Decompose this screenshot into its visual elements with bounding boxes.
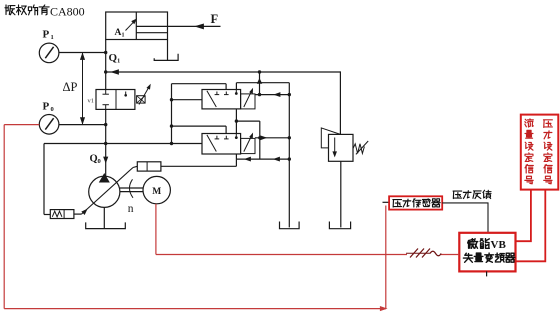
red sensor drop wire xyxy=(385,206,387,309)
svg-text:P: P xyxy=(43,29,50,41)
pump suction line xyxy=(103,207,105,228)
pump outlet triangle xyxy=(99,174,109,183)
valve V1 body xyxy=(96,90,135,110)
node main branch xyxy=(104,70,107,73)
cylinder drain line xyxy=(167,40,169,61)
force rod line xyxy=(168,25,221,27)
V1 solenoid xyxy=(137,96,146,103)
red setting wire B xyxy=(516,190,546,262)
inverter text line1 微能VB xyxy=(468,239,490,249)
tank T4 relief xyxy=(329,222,350,229)
svg-text:ΔP: ΔP xyxy=(63,80,78,94)
spring W zigzag xyxy=(52,211,62,217)
relief internal path xyxy=(334,138,336,156)
red bus arrow xyxy=(380,307,386,311)
relief pilot line xyxy=(321,128,340,148)
red motor power wire xyxy=(155,204,157,255)
DV1 top-right port stub xyxy=(235,83,237,90)
riser up arrow xyxy=(257,79,261,84)
valve2 top-left port line xyxy=(172,125,227,127)
dP arrow down xyxy=(81,118,85,124)
svg-text:A: A xyxy=(115,28,122,38)
dP arrow up xyxy=(81,54,85,60)
pressure header line xyxy=(106,71,341,73)
delta-P dimension line xyxy=(82,53,84,125)
svg-text:P: P xyxy=(43,101,50,113)
settings box xyxy=(521,115,559,190)
node pump line / bypass xyxy=(170,142,173,145)
pump variable displacement arrow xyxy=(82,168,134,215)
DV2 solenoid xyxy=(241,138,255,153)
svg-text:0: 0 xyxy=(51,106,54,113)
left loop wire xyxy=(43,144,45,215)
riser2 vertical xyxy=(259,121,261,159)
control/drain line y159 xyxy=(236,158,289,160)
DV2 out arrow xyxy=(261,136,267,140)
piston rod top xyxy=(136,25,167,27)
svg-text:1: 1 xyxy=(51,34,54,41)
link to riser2 xyxy=(236,120,259,122)
pump inlet from line xyxy=(105,144,107,177)
tank T1 under cylinder xyxy=(154,54,178,61)
shaft bottom line xyxy=(120,191,143,193)
DV1 proportional arrow xyxy=(244,90,252,107)
control line to right xyxy=(161,165,237,167)
svg-text:0: 0 xyxy=(98,158,101,165)
right bus vertical xyxy=(288,83,290,228)
DV1 top port to right bus xyxy=(236,82,289,84)
sensor text xyxy=(393,199,440,207)
svg-text:F: F xyxy=(211,12,219,26)
V1 internals xyxy=(105,90,107,95)
relief valve body xyxy=(329,134,354,161)
main line: cylinder to valve V1 xyxy=(105,40,107,90)
red bottom bus xyxy=(4,308,386,310)
red wire to P0 gauge xyxy=(4,124,39,126)
valve DV1 body xyxy=(202,90,241,109)
valve DV2 body xyxy=(202,134,241,155)
sensor stub xyxy=(383,201,390,203)
inverter text line2 矢量变频器 xyxy=(463,253,514,262)
DV1 solenoid out line xyxy=(255,94,289,96)
tank T3 right bus xyxy=(280,222,300,229)
piston rod bottom xyxy=(136,32,167,34)
tank T2 under pump xyxy=(86,222,126,228)
red setting wire A xyxy=(516,190,531,242)
valve1 left port line xyxy=(172,99,203,101)
pump outlet line xyxy=(44,143,202,145)
riser main to solenoid line xyxy=(259,72,261,95)
motor circle M xyxy=(143,176,170,203)
watermark 版权所有CA800 xyxy=(5,5,49,15)
shaft top line xyxy=(120,187,143,189)
left bypass vertical xyxy=(171,84,173,144)
inverter box xyxy=(459,233,515,272)
settings text right col 压力设定信号 xyxy=(543,120,552,184)
pressure gauge P0 xyxy=(39,115,59,135)
spring link to pump arrow xyxy=(74,213,82,215)
svg-text:v1: v1 xyxy=(88,98,95,105)
settings text left col 流量设定信号 xyxy=(525,119,533,184)
Q0 flow arrow xyxy=(104,157,108,163)
DV2 internals xyxy=(207,135,216,152)
DV2 bottom port stub xyxy=(235,154,237,159)
P0 tap line xyxy=(59,124,106,126)
node P0 junction xyxy=(104,123,107,126)
pump control box xyxy=(137,162,161,171)
inter-valve vertical xyxy=(235,109,237,134)
variable arrow head xyxy=(82,210,87,215)
DV1 solenoid xyxy=(241,94,255,109)
cylinder A1 body xyxy=(106,12,168,40)
svg-text:M: M xyxy=(152,187,161,197)
relief inlet line xyxy=(339,71,341,134)
feedback wire xyxy=(442,203,488,233)
header arrow xyxy=(112,70,119,74)
relief adjust arrow xyxy=(356,141,368,154)
red left riser xyxy=(3,125,5,309)
valve1 top-left port line xyxy=(172,83,227,85)
inverter bottom stub xyxy=(486,271,488,276)
svg-text:1: 1 xyxy=(122,33,125,39)
node pump line / main line xyxy=(104,142,107,145)
sensor box xyxy=(389,196,442,209)
cylinder piston xyxy=(135,12,137,40)
node P1 junction xyxy=(104,51,107,54)
main line: valve V1 to pump line xyxy=(105,109,107,143)
DV1 internals xyxy=(207,91,216,107)
V1 proportional arrow xyxy=(139,86,150,105)
P1 tap line xyxy=(59,52,106,54)
relief spring xyxy=(353,144,364,154)
svg-text:VB: VB xyxy=(491,239,507,251)
A1 variable arrow xyxy=(126,20,136,30)
relief drain line xyxy=(340,161,342,227)
svg-text:1: 1 xyxy=(117,58,120,65)
force arrowhead xyxy=(196,24,204,29)
svg-text:Q: Q xyxy=(90,154,98,165)
spring box W xyxy=(50,210,74,219)
cable break slashes xyxy=(410,249,418,258)
pressure gauge P1 xyxy=(39,43,59,63)
label 压力反馈 xyxy=(453,190,491,198)
pump circle xyxy=(89,176,120,207)
DV1 out arrow xyxy=(275,93,281,97)
DV2 proportional arrow xyxy=(244,135,252,152)
svg-text:n: n xyxy=(128,203,134,215)
svg-text:CA800: CA800 xyxy=(50,5,85,19)
DV2 solenoid out line xyxy=(255,137,289,139)
rotation arc xyxy=(129,179,133,198)
